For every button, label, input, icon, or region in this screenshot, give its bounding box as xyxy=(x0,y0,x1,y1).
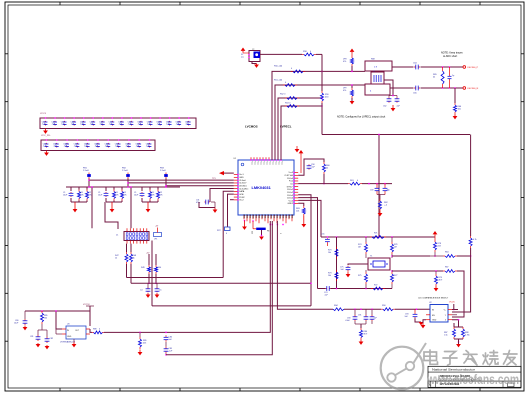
net wire C xyxy=(152,305,311,307)
resistor R55 xyxy=(343,84,354,101)
resistor R52 xyxy=(280,94,299,100)
resistor R78 xyxy=(434,240,441,257)
svg-text:U3: U3 xyxy=(67,324,69,326)
svg-text:GND: GND xyxy=(432,320,437,322)
capacitor C59 xyxy=(370,184,379,193)
net wire B xyxy=(131,283,312,284)
net label VCC5 xyxy=(83,304,94,306)
rail join vertical xyxy=(0,0,1,1)
resistor R50b xyxy=(155,254,163,284)
svg-text:C62: C62 xyxy=(383,106,386,108)
resistor R64 xyxy=(430,252,471,258)
ground R66 xyxy=(453,114,458,119)
svg-text:VCC3: VCC3 xyxy=(40,113,47,115)
svg-text:CLKin0*: CLKin0* xyxy=(239,183,247,185)
svg-text:JP1: JP1 xyxy=(154,239,157,241)
U1 top pins xyxy=(250,157,282,165)
capacitor C92 xyxy=(370,309,378,324)
ground C80 xyxy=(23,326,28,331)
svg-text:C4: C4 xyxy=(140,290,142,292)
capacitor C81 xyxy=(30,324,53,343)
terminating box R68 xyxy=(365,59,392,72)
svg-text:GND: GND xyxy=(245,214,247,219)
svg-text:4.7k: 4.7k xyxy=(473,239,477,241)
svg-text:R88: R88 xyxy=(93,329,96,331)
capacitor C47 xyxy=(140,283,150,298)
U2 pins xyxy=(426,310,452,320)
svg-text:47k: 47k xyxy=(343,90,346,92)
ferrite bead L2 xyxy=(253,221,270,233)
ground R89 xyxy=(138,350,143,356)
ground R87 xyxy=(456,339,461,347)
U1 bottom pins xyxy=(242,214,292,225)
capacitor C62 xyxy=(383,96,391,108)
ground R79 xyxy=(434,286,439,291)
svg-text:.01uF: .01uF xyxy=(345,320,351,322)
resistor R73a xyxy=(328,247,338,259)
svg-text:GND: GND xyxy=(287,214,289,219)
svg-text:R51_odd: R51_odd xyxy=(274,80,282,82)
svg-text:47k: 47k xyxy=(343,61,346,63)
resistor R73b xyxy=(328,270,338,281)
row C wire xyxy=(278,97,323,160)
capacitor C85 xyxy=(164,342,174,356)
svg-text:49.9: 49.9 xyxy=(364,333,368,335)
svg-text:National Semiconductor: National Semiconductor xyxy=(432,368,475,372)
resistor R67 xyxy=(443,267,464,318)
title block xyxy=(428,366,521,387)
svg-text:Vcc: Vcc xyxy=(254,162,256,165)
U1 right pins xyxy=(284,172,298,205)
resistor R66 term xyxy=(454,88,463,114)
svg-text:123: 123 xyxy=(251,231,253,234)
svg-text:DATA: DATA xyxy=(239,190,245,193)
svg-text:18p: 18p xyxy=(387,190,390,192)
svg-text:0: 0 xyxy=(99,329,100,331)
wire caps gnd xyxy=(360,324,362,328)
wire U2 out pins xyxy=(452,315,459,327)
ground T1 tap xyxy=(391,105,396,111)
capacitor C48 xyxy=(155,283,162,298)
svg-text:R75: R75 xyxy=(358,275,361,277)
resistor R85 xyxy=(41,311,48,324)
svg-text:C5: C5 xyxy=(159,290,161,292)
svg-text:Vcc: Vcc xyxy=(272,162,274,165)
svg-text:LVCMOS: LVCMOS xyxy=(245,125,258,129)
svg-text:CLKo3: CLKo3 xyxy=(287,195,294,197)
ground caps xyxy=(359,340,364,345)
svg-text:VCLK: VCLK xyxy=(449,302,455,304)
svg-text:Fout: Fout xyxy=(289,180,293,183)
resistor R59 xyxy=(321,91,330,135)
note ADC xyxy=(441,52,463,58)
svg-text:Vcc: Vcc xyxy=(260,162,262,165)
svg-text:GND: GND xyxy=(281,214,283,219)
wire xtal out lower xyxy=(392,270,443,271)
svg-text:GND: GND xyxy=(67,336,72,338)
ground C93 xyxy=(415,318,423,325)
wire header to net xyxy=(151,241,153,306)
wire R27 lower xyxy=(226,233,227,235)
svg-text:CLKo4: CLKo4 xyxy=(287,198,294,200)
wire caps bridge xyxy=(389,95,397,98)
svg-text:VCC_PLL: VCC_PLL xyxy=(41,135,52,137)
resistor R51 xyxy=(274,80,297,87)
svg-text:1.5uH: 1.5uH xyxy=(122,170,128,172)
row A wire xyxy=(272,71,365,160)
svg-text:10k: 10k xyxy=(328,275,331,277)
wire U3 out xyxy=(90,329,92,332)
svg-text:Vcc: Vcc xyxy=(251,162,253,165)
ground U3 xyxy=(72,339,77,347)
svg-text:CLKo2: CLKo2 xyxy=(287,192,294,194)
ground Y2 xyxy=(252,62,259,68)
resistor R88 xyxy=(92,329,104,334)
svg-text:1.5k: 1.5k xyxy=(444,334,448,336)
svg-text:R67: R67 xyxy=(445,267,448,269)
resistor R50 xyxy=(274,66,305,73)
branch wire down to xtal bus xyxy=(378,134,379,237)
resistor R86 xyxy=(360,328,368,340)
svg-text:1M: 1M xyxy=(358,246,361,248)
svg-text:243: 243 xyxy=(438,245,441,247)
wire bundle right 2 xyxy=(298,198,317,289)
ground L2 xyxy=(259,230,281,240)
3.3V rail lower wire xyxy=(166,221,272,355)
capacitor C91 xyxy=(355,309,368,324)
op-amp U1 LMK04031 body xyxy=(234,158,295,215)
terminal OSC_N xyxy=(463,87,479,90)
wire caps join xyxy=(377,192,385,194)
svg-text:CLKo0: CLKo0 xyxy=(287,178,294,180)
resistor R62 xyxy=(379,195,389,212)
svg-text:10k: 10k xyxy=(328,252,331,254)
svg-text:Vcc: Vcc xyxy=(278,162,280,165)
capacitor C93 xyxy=(404,309,417,318)
wire bundle right 4 xyxy=(0,0,1,1)
svg-text:1.5uH: 1.5uH xyxy=(83,170,89,172)
svg-text:Vcc: Vcc xyxy=(266,162,268,165)
LVCMOS label xyxy=(245,125,258,129)
svg-text:osc: osc xyxy=(241,57,244,59)
crystal Y1 xyxy=(368,256,390,271)
svg-text:GND: GND xyxy=(269,214,271,219)
svg-text:10k: 10k xyxy=(296,211,299,213)
svg-text:OSC300_P: OSC300_P xyxy=(467,67,479,69)
svg-text:27k: 27k xyxy=(81,194,84,196)
ground IC top xyxy=(295,146,300,152)
capacitor C58 xyxy=(307,164,316,170)
input bus xyxy=(25,306,90,326)
wire bundle right 3 xyxy=(298,200,321,237)
svg-text:GND: GND xyxy=(284,214,286,219)
svg-text:2: 2 xyxy=(279,233,281,234)
resistor R53 xyxy=(285,102,299,107)
svg-text:CLKin0: CLKin0 xyxy=(239,180,246,182)
resistor R90 inline xyxy=(381,305,430,310)
svg-text:27k: 27k xyxy=(152,194,155,196)
terminal OSC_P xyxy=(463,66,479,69)
svg-text:C81: C81 xyxy=(30,336,33,338)
svg-text:LMK04031: LMK04031 xyxy=(252,185,272,190)
wire bundle right 1 xyxy=(298,195,311,306)
input arrow CLKin xyxy=(219,171,234,175)
VCLK net xyxy=(449,302,458,311)
svg-text:Vcc: Vcc xyxy=(275,162,277,165)
svg-text:Vcc: Vcc xyxy=(263,162,265,165)
svg-text:GND: GND xyxy=(275,214,277,219)
svg-text:GND2: GND2 xyxy=(287,203,293,205)
svg-text:R72: R72 xyxy=(374,285,377,287)
wire clkout cont xyxy=(362,183,392,184)
wire bus to header xyxy=(91,186,131,228)
svg-text:1k: 1k xyxy=(133,258,135,260)
svg-text:49.9: 49.9 xyxy=(439,279,443,281)
svg-text:C59: C59 xyxy=(370,190,373,192)
resistor R61 xyxy=(348,180,362,185)
svg-text:CLKuWire: CLKuWire xyxy=(239,188,249,190)
capacitor C74 xyxy=(324,286,330,296)
power IC right xyxy=(299,150,304,173)
svg-text:1k: 1k xyxy=(115,258,117,260)
capacitor C90 xyxy=(345,309,357,322)
svg-text:10k: 10k xyxy=(44,317,47,319)
wire IC pin to lower bus B xyxy=(228,194,234,227)
pin label stub1 xyxy=(251,231,253,234)
capacitor C64 series xyxy=(413,63,420,70)
wire out P2 xyxy=(421,66,464,67)
wire net bus to beads xyxy=(88,179,234,186)
wire R87 top xyxy=(0,0,1,1)
jumper JP2 xyxy=(154,226,162,241)
svg-text:Y1: Y1 xyxy=(370,256,372,258)
svg-text:CLK COMPATIBLE MODE SELECT: CLK COMPATIBLE MODE SELECT xyxy=(418,297,449,300)
resistor R72 bottom xyxy=(371,285,385,290)
resistor R71 xyxy=(370,233,386,239)
svg-text:LVPECL: LVPECL xyxy=(280,125,292,129)
capacitor C65 series xyxy=(413,86,420,95)
svg-text:1k: 1k xyxy=(326,168,328,170)
svg-text:Vcc: Vcc xyxy=(269,162,271,165)
svg-text:R71: R71 xyxy=(374,233,377,235)
header J1 xyxy=(116,228,149,243)
svg-text:GND: GND xyxy=(266,214,268,219)
resistor R28 xyxy=(115,244,128,278)
wire IC bottom long1 xyxy=(0,0,1,1)
svg-text:GND: GND xyxy=(248,214,250,219)
long wire to output stage xyxy=(322,134,470,136)
wire out P xyxy=(392,66,414,68)
LVPECL label xyxy=(280,125,292,129)
svg-text:453: 453 xyxy=(143,342,146,344)
resistor R63 pulldown xyxy=(296,203,306,227)
wire IC pin to lower bus A xyxy=(223,191,234,277)
svg-text:SYNC: SYNC xyxy=(239,197,245,199)
resistor R65 xyxy=(433,67,444,88)
resistor R60 xyxy=(323,162,331,184)
U3 label xyxy=(60,341,76,344)
ground C81 xyxy=(36,343,50,349)
wire out N2 xyxy=(421,87,464,88)
svg-text:R64: R64 xyxy=(445,252,448,254)
svg-text:R50_odd: R50_odd xyxy=(274,66,282,68)
svg-text:GND: GND xyxy=(290,214,292,219)
svg-text:GND: GND xyxy=(272,214,274,219)
capacitor C60 xyxy=(383,184,390,193)
svg-text:CLKT1uB: CLKT1uB xyxy=(284,175,293,177)
terminating box R69 xyxy=(365,84,390,95)
resistor R89 xyxy=(139,332,147,349)
svg-text:R77: R77 xyxy=(394,275,397,277)
svg-text:Y2: Y2 xyxy=(252,49,254,51)
svg-text:to ADC short: to ADC short xyxy=(443,55,457,58)
resistor box R27 xyxy=(217,227,230,232)
resistor R58 xyxy=(302,53,322,56)
ground under header area xyxy=(0,0,1,1)
wire bundle right 5 xyxy=(0,0,1,1)
TP label xyxy=(212,178,217,180)
resistor R79 xyxy=(435,271,443,286)
svg-text:GND: GND xyxy=(263,214,265,219)
svg-text:GND: GND xyxy=(251,214,253,219)
svg-text:0: 0 xyxy=(226,233,227,235)
svg-text:4k: 4k xyxy=(433,77,435,79)
capacitor C66 xyxy=(448,67,456,88)
svg-text:LEuWire: LEuWire xyxy=(239,185,248,187)
capacitor C55 xyxy=(321,234,330,247)
3.3V rail wire xyxy=(104,221,270,333)
net vertical wire xyxy=(321,54,323,91)
oscillator Y2 xyxy=(241,49,260,62)
regulator U3 xyxy=(62,324,90,340)
svg-text:470p: 470p xyxy=(196,202,200,204)
ground R55 xyxy=(350,101,355,104)
ground R62 xyxy=(378,211,383,216)
svg-text:4.75k: 4.75k xyxy=(465,334,470,336)
wire cluster to header xyxy=(105,202,118,229)
wire xtal sides xyxy=(366,254,393,272)
ferrite FB4 xyxy=(333,305,381,310)
wire T1 tap caps xyxy=(384,80,393,95)
svg-text:R53 0: R53 0 xyxy=(285,102,291,104)
resistor R87a xyxy=(444,310,470,343)
resistor R75 xyxy=(358,272,368,289)
transformer T1 xyxy=(371,71,384,84)
wire Y2 out xyxy=(260,51,312,54)
svg-text:1.5uH: 1.5uH xyxy=(160,170,166,172)
svg-text:1M: 1M xyxy=(394,246,397,248)
svg-text:GND: GND xyxy=(257,214,259,219)
svg-text:OSC300_N: OSC300_N xyxy=(467,88,479,90)
power VCC output stage xyxy=(350,49,355,57)
resistor R54 xyxy=(343,56,354,72)
wire loop R60 xyxy=(298,159,324,175)
svg-text:C55: C55 xyxy=(321,234,324,236)
svg-text:GND: GND xyxy=(242,214,244,219)
long vertical output net xyxy=(470,135,472,237)
svg-text:GND: GND xyxy=(254,214,256,219)
LVDS buffer U2 xyxy=(418,297,449,323)
svg-text:LP2985AIM5-3.3: LP2985AIM5-3.3 xyxy=(60,341,76,344)
RC filter clusters xyxy=(63,187,163,212)
resistor R29 xyxy=(130,244,138,284)
svg-text:GND: GND xyxy=(278,214,280,219)
svg-text:Vcc: Vcc xyxy=(281,162,283,165)
wire xtal out upper xyxy=(392,255,430,257)
svg-text:R52 0: R52 0 xyxy=(280,94,286,96)
resistor R77 xyxy=(391,272,398,289)
wire U3 left xyxy=(55,310,62,334)
row B wire xyxy=(275,85,365,160)
wire main clkout xyxy=(298,183,348,185)
ground C31 xyxy=(213,208,218,213)
svg-text:27k: 27k xyxy=(89,194,92,196)
ground U2 xyxy=(421,320,426,329)
power bus wire xyxy=(66,179,180,188)
svg-text:NOTE: Configured for LVPECL ou: NOTE: Configured for LVPECL output clock xyxy=(337,116,386,119)
capacitor C80 xyxy=(14,311,27,325)
ferrite beads FB1-FB3 xyxy=(83,168,168,179)
wire IC bottom long2 xyxy=(0,0,1,1)
svg-text:GND: GND xyxy=(239,177,244,179)
U1 left pins xyxy=(234,174,249,202)
resistor R74 xyxy=(358,237,368,254)
svg-text:27k: 27k xyxy=(116,194,119,196)
watermark elecfans xyxy=(381,343,519,389)
svg-text:GOE: GOE xyxy=(239,194,244,196)
capacitor bank row2 (C56-C66 decoupling) xyxy=(41,135,155,156)
resistor R80 inline xyxy=(452,236,477,312)
xtal bottom bus xyxy=(318,288,393,289)
capacitor bank row1 (C40-C55 decoupling) xyxy=(40,113,196,134)
resistor R49 xyxy=(141,253,151,285)
xtal top bus xyxy=(321,236,435,237)
ground IC bottom 1 xyxy=(242,221,247,230)
svg-text:Vcc: Vcc xyxy=(257,162,259,165)
svg-text:CLKo1: CLKo1 xyxy=(287,189,294,191)
svg-text:27k: 27k xyxy=(124,194,127,196)
power Y2 xyxy=(241,48,249,54)
svg-text:C82: C82 xyxy=(50,338,53,340)
power xtal xyxy=(433,231,438,240)
svg-text:C91: C91 xyxy=(358,315,361,317)
stub pin xyxy=(230,199,234,201)
svg-text:27k: 27k xyxy=(160,194,163,196)
main clock wire xyxy=(277,221,333,309)
svg-text:www.elecfans.com: www.elecfans.com xyxy=(426,372,519,387)
svg-text:GND: GND xyxy=(260,214,262,219)
capacitor C84 xyxy=(164,335,173,341)
xtal left rail xyxy=(336,237,338,289)
capacitor C75 gnd xyxy=(340,264,368,277)
resistor R76 xyxy=(391,237,398,254)
row D wire xyxy=(281,105,323,160)
capacitor C63 xyxy=(395,97,401,107)
wire to C31 xyxy=(210,189,234,201)
net wire A xyxy=(127,277,224,279)
wire out N xyxy=(390,87,414,89)
svg-text:SYNC*: SYNC* xyxy=(287,186,294,188)
note LVPECL xyxy=(337,116,386,119)
capacitor C31 xyxy=(196,200,215,208)
